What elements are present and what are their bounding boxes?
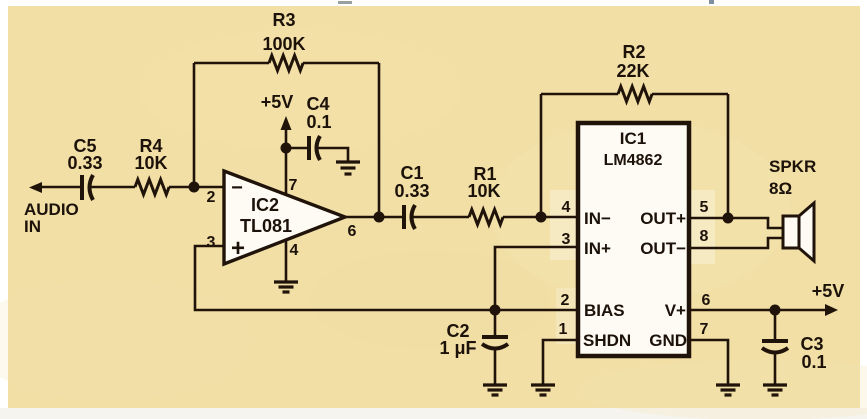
svg-text:3: 3 — [207, 234, 216, 251]
ground pin4 — [274, 282, 298, 292]
ground C4 — [336, 162, 360, 174]
svg-text:0.1: 0.1 — [306, 112, 331, 132]
label SPKR 8ohm — [769, 157, 816, 198]
capacitor C3 — [762, 341, 788, 353]
ground SHDN — [531, 385, 555, 395]
wire: AUDIO IN line with arrow — [38, 186, 81, 189]
svg-text:LM4862: LM4862 — [604, 152, 663, 169]
svg-text:0.33: 0.33 — [394, 181, 429, 201]
svg-text:+5V: +5V — [261, 92, 294, 112]
wire SHDN to ground — [543, 340, 578, 385]
wire C3 to ground — [774, 352, 777, 385]
wire pin3 feedback to BIAS row — [195, 246, 578, 310]
wire IN+ elbow — [495, 247, 578, 337]
wire junction to C4 — [286, 147, 308, 150]
capacitor C1 — [404, 205, 415, 229]
ground C3 — [763, 385, 787, 395]
svg-text:100K: 100K — [262, 34, 305, 54]
wire junction to C3 — [774, 310, 777, 341]
svg-text:V+: V+ — [665, 301, 686, 320]
resistor R1 — [469, 210, 503, 225]
svg-text:4: 4 — [562, 199, 571, 216]
wire C4 to ground — [317, 148, 349, 162]
node junction at pin2 — [189, 182, 200, 193]
wire C5 to R4 — [90, 186, 136, 189]
svg-text:IN: IN — [24, 217, 41, 236]
svg-text:OUT+: OUT+ — [640, 209, 686, 228]
svg-text:4: 4 — [290, 242, 299, 259]
wire R3 top right — [303, 62, 379, 65]
wire R3 right leg — [378, 63, 381, 217]
IC U2 IC1 LM4862 box — [578, 123, 689, 356]
svg-text:1: 1 — [559, 321, 568, 338]
svg-text:IN−: IN− — [584, 209, 611, 228]
svg-text:8Ω: 8Ω — [769, 179, 792, 198]
svg-text:6: 6 — [702, 292, 711, 309]
node junction OUT+/R2 — [723, 213, 734, 224]
svg-text:OUT−: OUT− — [640, 239, 686, 258]
wire V+ to +5V arrow — [689, 309, 828, 312]
svg-text:0.33: 0.33 — [67, 153, 102, 173]
svg-text:R2: R2 — [622, 42, 645, 62]
wire R3 top left — [194, 62, 269, 65]
resistor R4 — [135, 180, 169, 195]
node junction output — [374, 212, 385, 223]
wire R1 to IC1 IN- — [503, 216, 578, 219]
svg-text:IN+: IN+ — [584, 239, 611, 258]
svg-text:7: 7 — [289, 177, 298, 194]
speaker SPKR 8 ohm — [783, 203, 814, 261]
svg-text:+: + — [231, 235, 245, 262]
svg-text:1 μF: 1 μF — [439, 338, 476, 358]
arrowhead +5V — [825, 304, 838, 316]
node junction R2 left — [536, 212, 547, 223]
capacitor C4 — [309, 136, 320, 160]
svg-text:3: 3 — [562, 231, 571, 248]
wire R4 to op-amp pin2 — [169, 186, 224, 189]
wire C2 to ground — [494, 348, 497, 385]
svg-text:IC2: IC2 — [251, 195, 279, 215]
node junction V+/C3 — [770, 305, 781, 316]
svg-text:SHDN: SHDN — [583, 331, 631, 350]
svg-text:22K: 22K — [616, 61, 649, 81]
wire op-amp output — [345, 216, 403, 219]
wire R3 left leg — [193, 63, 196, 187]
svg-text:2: 2 — [561, 292, 570, 309]
wire pin4 to ground — [285, 240, 288, 282]
wire R2 top left — [541, 93, 618, 96]
wire R2 right leg — [727, 94, 730, 218]
svg-text:10K: 10K — [467, 181, 500, 201]
svg-text:6: 6 — [348, 223, 357, 240]
label AUDIO IN — [24, 200, 79, 236]
svg-text:TL081: TL081 — [240, 216, 292, 236]
wire OUT- to speaker — [689, 238, 783, 248]
svg-text:2: 2 — [207, 189, 216, 206]
svg-text:0.1: 0.1 — [801, 352, 826, 372]
svg-text:BIAS: BIAS — [584, 301, 625, 320]
op-amp U1 IC2 TL081 — [224, 171, 345, 264]
ground C2 — [483, 385, 507, 395]
wire OUT+ to speaker — [689, 218, 783, 228]
svg-text:+5V: +5V — [812, 281, 845, 301]
arrowhead AUDIO IN — [29, 182, 42, 193]
ground pin7 — [716, 385, 740, 395]
svg-text:R3: R3 — [272, 10, 295, 30]
svg-text:8: 8 — [700, 228, 709, 245]
resistor R3 — [269, 56, 303, 71]
svg-text:C1: C1 — [400, 163, 423, 183]
svg-text:10K: 10K — [134, 153, 167, 173]
wire C1 to R1 — [412, 216, 470, 219]
node junction BIAS/C2 — [490, 305, 501, 316]
svg-text:C3: C3 — [800, 334, 823, 354]
node junction +5V/C4 — [281, 143, 292, 154]
wire R2 top right — [652, 93, 728, 96]
wire GND pin7 to ground — [689, 340, 728, 385]
svg-text:C4: C4 — [306, 94, 329, 114]
capacitor C5 — [82, 175, 93, 200]
svg-text:−: − — [231, 177, 243, 199]
wire pin7 supply — [285, 148, 288, 194]
power +5V arrow for op-amp — [261, 92, 294, 148]
svg-text:GND: GND — [649, 331, 687, 350]
capacitor C2 — [482, 337, 508, 349]
svg-text:IC1: IC1 — [620, 129, 646, 148]
svg-text:7: 7 — [700, 321, 709, 338]
wire R2 left leg — [540, 94, 543, 217]
resistor R2 — [618, 87, 652, 102]
svg-text:5: 5 — [700, 199, 709, 216]
svg-text:SPKR: SPKR — [769, 157, 816, 176]
